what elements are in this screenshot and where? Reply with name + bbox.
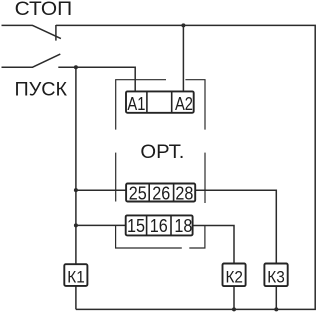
svg-text:18: 18 <box>174 216 192 236</box>
svg-text:15: 15 <box>127 216 145 236</box>
svg-text:К3: К3 <box>267 268 285 286</box>
svg-text:28: 28 <box>175 184 193 204</box>
svg-text:К1: К1 <box>67 268 85 286</box>
svg-text:16: 16 <box>150 216 168 236</box>
svg-text:К2: К2 <box>225 268 243 286</box>
svg-text:А1: А1 <box>127 94 145 114</box>
svg-text:25: 25 <box>129 184 147 204</box>
svg-text:26: 26 <box>152 184 170 204</box>
svg-text:ПУСК: ПУСК <box>15 79 68 100</box>
svg-text:ОРТ.: ОРТ. <box>140 142 184 163</box>
svg-text:СТОП: СТОП <box>15 0 73 20</box>
svg-text:А2: А2 <box>175 94 193 114</box>
